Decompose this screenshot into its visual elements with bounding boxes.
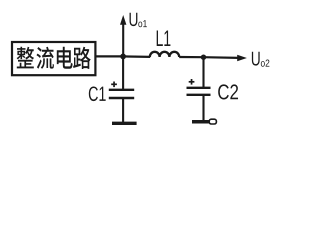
- label L1: [157, 31, 171, 47]
- arrowhead Uo1 (pointing up): [120, 15, 126, 25]
- label Uo1: [130, 13, 138, 26]
- node A (junction dot): [120, 54, 126, 60]
- arrowhead Uo2 (pointing right): [237, 55, 247, 61]
- wire: Uo1 arrow shaft (up from node A): [122, 24, 124, 57]
- wire: node A down to C1 top plate: [122, 56, 124, 89]
- capacitor C2 bottom plate: [187, 94, 211, 96]
- label C1: [89, 86, 106, 101]
- polarity + of C1: [111, 82, 117, 88]
- wire: block output to node A: [95, 55, 123, 57]
- polarity + of C2: [189, 79, 195, 85]
- wire: node B down to C2 top plate: [202, 57, 204, 88]
- capacitor C1 top plate: [109, 89, 134, 91]
- label 整流电路 (rectifier circuit): [17, 47, 91, 69]
- wire: node A to inductor L1: [123, 55, 150, 58]
- capacitor C2 top plate: [187, 87, 211, 89]
- wire: C2 bottom plate to ground bar: [202, 95, 204, 121]
- ground bar under C1: [112, 122, 137, 125]
- ground bar under C2: [192, 120, 210, 124]
- wire: node B to Uo2 output arrow: [204, 56, 239, 59]
- rectifier block box (整流电路): [12, 42, 95, 75]
- stray rounded mark at right end of C2 ground bar (scan artifact): [209, 119, 216, 124]
- wire: inductor L1 to node B: [179, 56, 203, 58]
- capacitor C1 bottom plate: [109, 97, 134, 99]
- label Uo2: [252, 52, 260, 66]
- node B (junction dot): [201, 55, 206, 60]
- inductor L1 (3 half-loops): [150, 52, 179, 57]
- wire: C1 bottom plate to ground bar: [122, 98, 124, 122]
- label C2: [218, 84, 238, 99]
